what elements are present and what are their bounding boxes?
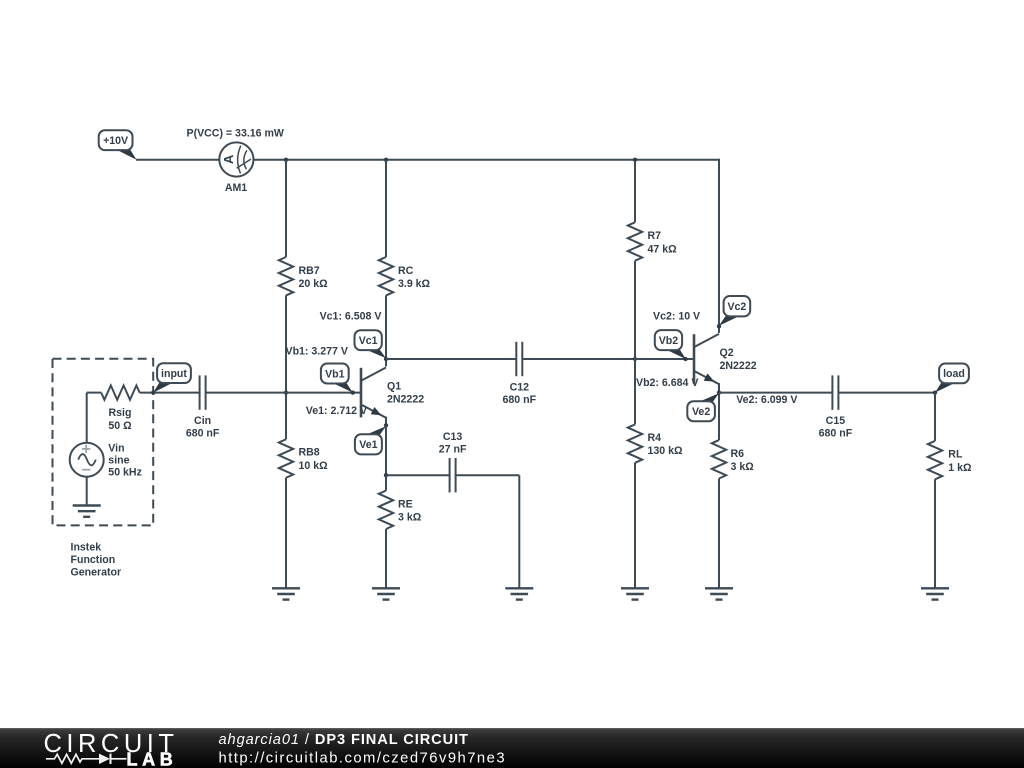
- svg-text:LAB: LAB: [127, 750, 178, 768]
- wire: [140, 392, 200, 394]
- node j2: [384, 158, 388, 162]
- wire: [719, 392, 832, 394]
- svg-text:A: A: [221, 154, 236, 164]
- label Cin: [186, 415, 220, 439]
- svg-text:P(VCC) = 33.16 mW: P(VCC) = 33.16 mW: [187, 128, 284, 140]
- resistor R4: [628, 424, 642, 462]
- svg-text:Q2: Q2: [720, 347, 734, 359]
- svg-text:Cin: Cin: [194, 415, 211, 427]
- net flag Vb2: [655, 330, 686, 359]
- svg-text:2N2222: 2N2222: [720, 360, 757, 372]
- svg-text:Ve2: Ve2: [692, 406, 710, 418]
- svg-text:Vc1: 6.508 V: Vc1: 6.508 V: [320, 311, 382, 323]
- node Vc2 anchor: [717, 324, 721, 328]
- net flag Vc2: [719, 296, 750, 326]
- ground: [272, 588, 300, 599]
- wire: [86, 393, 88, 443]
- resistor Rsig: [101, 385, 139, 399]
- svg-text:50 kHz: 50 kHz: [108, 466, 142, 478]
- wire emitter Q1: [385, 425, 387, 475]
- net flag input: [153, 363, 191, 392]
- label C13: [439, 431, 467, 455]
- svg-text:ahgarcia01 / DP3 FINAL CIRCUIT: ahgarcia01 / DP3 FINAL CIRCUIT: [219, 732, 469, 748]
- label RB8: [299, 447, 329, 472]
- node Ve1 anchor: [384, 423, 388, 427]
- svg-text:Ve2: 6.099 V: Ve2: 6.099 V: [736, 394, 797, 406]
- svg-text:Generator: Generator: [71, 567, 122, 579]
- label P(VCC): [187, 128, 284, 140]
- resistor R7: [628, 222, 642, 260]
- svg-text:50 Ω: 50 Ω: [108, 420, 132, 432]
- node j7: [717, 390, 721, 394]
- svg-text:load: load: [943, 368, 965, 380]
- wire: [634, 261, 636, 359]
- svg-text:3 kΩ: 3 kΩ: [731, 461, 755, 473]
- svg-text:680 nF: 680 nF: [186, 428, 220, 440]
- power flag +10V: [99, 130, 137, 160]
- svg-text:27 nF: 27 nF: [439, 443, 467, 455]
- svg-text:Vc1: Vc1: [359, 335, 378, 347]
- wire: [934, 393, 936, 441]
- svg-text:Ve1: Ve1: [359, 439, 377, 451]
- logo resistor-diode line: [46, 754, 127, 764]
- label R4: [648, 432, 684, 457]
- wire mid rail: [386, 358, 516, 360]
- wire: [285, 393, 287, 440]
- wire: [634, 359, 636, 424]
- svg-text:R7: R7: [648, 230, 662, 242]
- resistor RB8: [279, 439, 293, 477]
- svg-text:C15: C15: [826, 415, 846, 427]
- wire: [385, 160, 387, 257]
- ground: [505, 588, 533, 599]
- resistor RE: [379, 491, 393, 529]
- transistor Q1: [361, 359, 386, 426]
- node j5: [384, 473, 388, 477]
- svg-text:Q1: Q1: [387, 381, 401, 393]
- wire: [456, 474, 520, 476]
- capacitor C15: [832, 375, 838, 409]
- transistor Q2: [694, 326, 719, 393]
- node Vc1 anchor: [384, 357, 388, 361]
- wire: [385, 529, 387, 588]
- svg-text:Vb2: Vb2: [659, 335, 679, 347]
- wire Q2 collector drop: [718, 159, 720, 326]
- node j3: [633, 158, 637, 162]
- node j4: [284, 390, 288, 394]
- label RB7: [299, 265, 329, 290]
- svg-text:Vb2: 6.684 V: Vb2: 6.684 V: [636, 377, 698, 389]
- svg-text:Function: Function: [71, 554, 116, 566]
- svg-text:Instek: Instek: [71, 542, 102, 554]
- svg-text:C12: C12: [510, 382, 530, 394]
- svg-text:Rsig: Rsig: [109, 407, 132, 419]
- wire: [285, 478, 287, 589]
- resistor RB7: [279, 257, 293, 295]
- wire base Q1: [286, 392, 360, 394]
- node j6: [633, 357, 637, 361]
- svg-text:RE: RE: [398, 498, 413, 510]
- svg-text:10 kΩ: 10 kΩ: [299, 460, 329, 472]
- capacitor Cin: [200, 375, 206, 409]
- wire: [206, 392, 286, 394]
- resistor RL: [928, 441, 942, 479]
- svg-text:47 kΩ: 47 kΩ: [648, 243, 678, 255]
- svg-text:20 kΩ: 20 kΩ: [299, 278, 329, 290]
- net flag load: [935, 364, 969, 393]
- wire mid rail 2: [522, 358, 635, 360]
- label Vc1 value: [320, 311, 382, 323]
- node load: [933, 390, 937, 394]
- ground: [372, 588, 400, 599]
- source Vin: [70, 443, 104, 477]
- wire: [385, 295, 387, 359]
- svg-text:1 kΩ: 1 kΩ: [948, 462, 972, 474]
- wire: [136, 159, 219, 161]
- ground: [921, 588, 949, 599]
- label C12: [503, 382, 537, 406]
- svg-text:Vb1: Vb1: [325, 368, 345, 380]
- svg-text:Vin: Vin: [108, 442, 124, 454]
- wire: [634, 463, 636, 589]
- wire: [934, 479, 936, 588]
- label AM1: [225, 182, 247, 194]
- label Rsig: [108, 407, 132, 432]
- svg-text:C13: C13: [443, 431, 463, 443]
- ground: [705, 588, 733, 599]
- footer url line: [219, 750, 507, 766]
- svg-text:680 nF: 680 nF: [819, 428, 853, 440]
- label RL: [948, 449, 972, 474]
- wire: [718, 393, 720, 441]
- svg-text:Vc2: Vc2: [727, 301, 746, 313]
- label Vb1 value: [286, 345, 348, 357]
- resistor RC: [379, 257, 393, 295]
- svg-text:RC: RC: [398, 265, 414, 277]
- svg-text:RB8: RB8: [299, 447, 320, 459]
- wire: [718, 479, 720, 589]
- wire: [285, 160, 287, 257]
- label Q1: [387, 381, 424, 406]
- label Ve1 value: [306, 405, 367, 417]
- node Vb1 anchor: [351, 390, 355, 394]
- label Instek: [71, 542, 122, 579]
- svg-text:+10V: +10V: [103, 135, 128, 147]
- svg-text:2N2222: 2N2222: [387, 393, 424, 405]
- capacitor C12: [516, 342, 522, 376]
- svg-text:http://circuitlab.com/czed76v9: http://circuitlab.com/czed76v9h7ne3: [219, 750, 507, 766]
- label Q2: [720, 347, 757, 372]
- wire: [518, 475, 520, 588]
- svg-text:Vc2: 10 V: Vc2: 10 V: [653, 310, 700, 322]
- label R7: [648, 230, 678, 255]
- label Vin: [108, 442, 142, 478]
- node Vb2 anchor: [683, 357, 687, 361]
- wire: [86, 477, 88, 506]
- label Vb2 value: [636, 377, 698, 389]
- svg-text:Vb1: 3.277 V: Vb1: 3.277 V: [286, 345, 348, 357]
- net flag Vc1: [355, 330, 387, 358]
- logo LAB: [127, 750, 178, 768]
- wire top rail: [254, 159, 720, 161]
- net flag Ve2: [687, 393, 719, 421]
- svg-text:3.9 kΩ: 3.9 kΩ: [398, 278, 431, 290]
- resistor R6: [712, 440, 726, 478]
- ammeter AM1: [219, 142, 253, 176]
- label Ve2 value: [736, 394, 797, 406]
- ground source: [73, 506, 101, 517]
- node input: [151, 390, 155, 394]
- node j1: [284, 158, 288, 162]
- net flag Ve1: [355, 426, 386, 454]
- wire: [838, 392, 935, 394]
- label RE: [398, 498, 422, 523]
- svg-text:sine: sine: [108, 454, 129, 466]
- wire base Q2: [635, 358, 693, 360]
- svg-text:R6: R6: [731, 448, 745, 460]
- footer bar: [0, 728, 1024, 768]
- svg-text:130 kΩ: 130 kΩ: [648, 445, 684, 457]
- svg-text:Ve1: 2.712 V: Ve1: 2.712 V: [306, 405, 367, 417]
- source box: [53, 359, 154, 526]
- svg-text:input: input: [161, 368, 187, 380]
- footer title line: [219, 732, 469, 748]
- svg-text:RL: RL: [948, 449, 963, 461]
- label RC: [398, 265, 431, 290]
- capacitor C13: [450, 458, 456, 492]
- svg-text:R4: R4: [648, 432, 662, 444]
- ground: [621, 588, 649, 599]
- logo CIRCUIT: [44, 730, 179, 758]
- label Vc2 value: [653, 310, 700, 322]
- wire: [385, 475, 387, 490]
- svg-text:680 nF: 680 nF: [503, 394, 537, 406]
- wire: [87, 392, 102, 394]
- svg-text:AM1: AM1: [225, 182, 247, 194]
- net flag Vb1: [321, 364, 353, 393]
- wire: [285, 295, 287, 392]
- wire: [634, 160, 636, 223]
- svg-text:3 kΩ: 3 kΩ: [398, 512, 422, 524]
- svg-text:RB7: RB7: [299, 265, 320, 277]
- label C15: [819, 415, 853, 439]
- label R6: [731, 448, 755, 473]
- wire: [386, 474, 450, 476]
